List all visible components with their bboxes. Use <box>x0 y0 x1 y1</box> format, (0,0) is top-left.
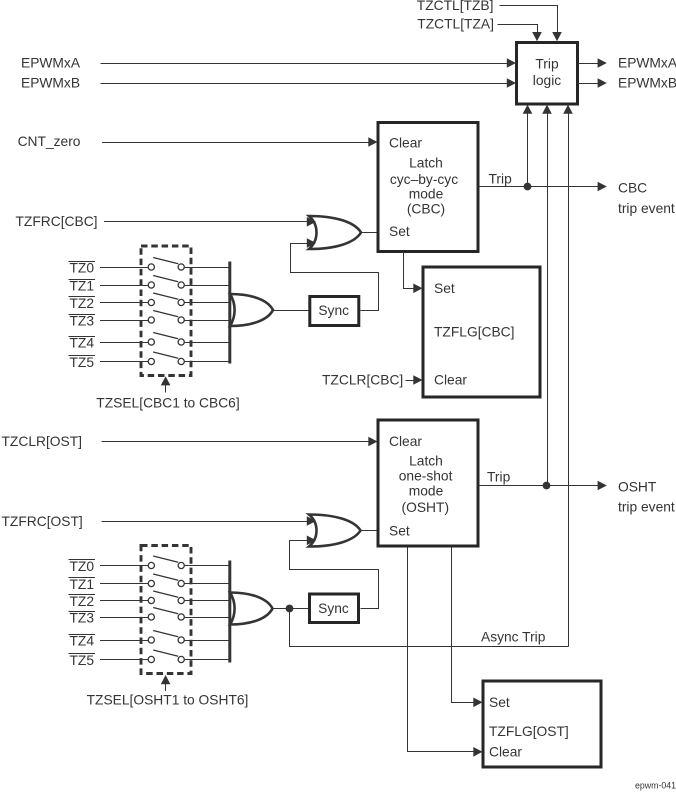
output label CBC trip event <box>618 181 675 216</box>
pin label Clear (TZFLG CBC) <box>434 373 467 388</box>
or-gate input bar (OSHT) <box>228 561 231 663</box>
input label TZ5 (OSHT) with overline <box>69 653 96 668</box>
svg-text:Trip: Trip <box>535 57 559 72</box>
figure id epwm-041 <box>635 781 676 791</box>
wire switch S9 to OR bar (OSHT) <box>184 600 228 602</box>
pin label Clear (OSHT latch) <box>389 434 422 449</box>
svg-text:EPWMxA: EPWMxA <box>618 56 676 71</box>
wire switch S6 to OR bar (CBC) <box>184 361 228 363</box>
dashed box TZSEL[CBC] switches <box>141 246 191 376</box>
block TZFLG[CBC] <box>423 267 540 397</box>
pin label Clear (CBC latch) <box>389 136 422 151</box>
wire TZ4 to switch S11 (OSHT) <box>100 640 148 642</box>
svg-text:TZ0: TZ0 <box>70 559 95 574</box>
svg-text:cyc–by-cyc: cyc–by-cyc <box>390 172 458 187</box>
input label TZ0 (CBC) with overline <box>69 260 96 275</box>
input label TZ2 (OSHT) with overline <box>69 594 96 609</box>
text Latch cyc-by-cyc mode (CBC) <box>390 156 458 217</box>
wire TZFRC[CBC] to OR gate U2 <box>104 217 316 227</box>
wire Async Trip up to Trip logic <box>563 105 573 647</box>
input label TZ0 (OSHT) with overline <box>69 559 96 574</box>
net label TZFRC[CBC] <box>16 214 98 229</box>
wire U3 output to Sync (OSHT) <box>272 608 310 610</box>
or-gate U4 (OSHT force) <box>309 515 361 547</box>
wire switch S4 to OR bar (CBC) <box>184 320 228 322</box>
wire Trip logic out B <box>578 78 607 88</box>
svg-text:mode: mode <box>409 484 444 499</box>
wire TZ5 to switch S6 (CBC) <box>100 361 148 363</box>
svg-text:Trip: Trip <box>487 470 511 485</box>
switch S2 (CBC) <box>148 276 184 289</box>
wire switch S10 to OR bar (OSHT) <box>184 617 228 619</box>
svg-text:TZFLG[CBC]: TZFLG[CBC] <box>434 324 514 339</box>
svg-text:Set: Set <box>434 281 455 296</box>
svg-text:TZ4: TZ4 <box>70 633 95 648</box>
wire CBC Trip to CBC trip event <box>478 182 607 192</box>
or-gate U2 (CBC force) <box>309 216 361 249</box>
wire TZ3 to switch S4 (CBC) <box>100 320 148 322</box>
svg-text:TZ2: TZ2 <box>70 594 95 609</box>
dashed box TZSEL[OSHT] switches <box>141 546 191 674</box>
wire TZCTL[TZB] to Trip logic <box>500 6 562 42</box>
svg-text:(OSHT): (OSHT) <box>402 500 450 515</box>
svg-text:Set: Set <box>389 224 410 239</box>
svg-text:CBC: CBC <box>618 181 647 196</box>
net label Trip (OSHT) <box>487 470 511 485</box>
block CBC latch <box>378 123 478 252</box>
block OSHT latch <box>378 420 478 546</box>
svg-text:logic: logic <box>533 73 561 88</box>
wire TZCLR[OST] to OSHT latch Clear <box>102 437 378 447</box>
switch S11 (OSHT) <box>148 631 184 644</box>
wire TZ3 to switch S10 (OSHT) <box>100 617 148 619</box>
select arrow TZSEL[CBC] <box>161 376 171 392</box>
switch S3 (CBC) <box>148 293 184 306</box>
wire OSHT latch to TZFLG[OST] Set <box>452 548 483 708</box>
svg-text:TZFRC[OST]: TZFRC[OST] <box>2 514 83 529</box>
output label EPWMxB <box>618 76 676 91</box>
pin label Set (TZFLG CBC) <box>434 281 455 296</box>
input label TZ1 (CBC) with overline <box>69 278 96 293</box>
pin label Set (CBC latch) <box>389 224 410 239</box>
svg-text:Clear: Clear <box>389 434 422 449</box>
wire switch S11 to OR bar (OSHT) <box>184 640 228 642</box>
wire U1 output to Sync (CBC) <box>272 310 309 312</box>
input label TZ5 (CBC) with overline <box>69 355 96 370</box>
switch S1 (CBC) <box>148 258 184 271</box>
input label TZ3 (OSHT) with overline <box>69 610 96 625</box>
svg-text:CNT_zero: CNT_zero <box>18 134 81 149</box>
switch S8 (OSHT) <box>148 574 184 587</box>
wire switch S1 to OR bar (CBC) <box>184 267 228 269</box>
net label CNT_zero <box>18 134 81 149</box>
svg-text:Sync: Sync <box>318 303 349 318</box>
wire Sync OSHT to OR gate U4 <box>290 536 379 609</box>
wire CNT_zero to CBC latch Clear <box>102 137 378 147</box>
svg-text:Trip: Trip <box>489 171 513 186</box>
pin label Set (OSHT latch) <box>389 523 410 538</box>
output label EPWMxA <box>618 56 676 71</box>
net label TZFRC[OST] <box>2 514 83 529</box>
svg-text:mode: mode <box>409 186 444 201</box>
svg-text:TZCTL[TZB]: TZCTL[TZB] <box>417 0 494 13</box>
pin label Set (TZFLG OST) <box>489 695 510 710</box>
wire U2 output to CBC latch Set <box>361 232 377 234</box>
wire CBC latch Set to TZFLG[CBC] Set <box>404 252 423 294</box>
wire TZ0 to switch S7 (OSHT) <box>100 565 148 567</box>
junction async trip <box>286 605 294 613</box>
svg-text:EPWMxB: EPWMxB <box>618 76 676 91</box>
junction CBC trip <box>524 183 532 191</box>
label TZSEL[OSHT1 to OSHT6] <box>87 692 249 707</box>
input label TZ2 (CBC) with overline <box>69 296 96 311</box>
input label TZ3 (CBC) with overline <box>69 313 96 328</box>
wire TZ1 to switch S8 (OSHT) <box>100 583 148 585</box>
pin label Clear (TZFLG OST) <box>489 744 522 759</box>
wire TZFRC[OST] to OR gate U4 <box>102 516 317 526</box>
wire TZ1 to switch S2 (CBC) <box>100 285 148 287</box>
text TZFLG[OST] <box>489 724 569 739</box>
svg-text:Set: Set <box>489 695 510 710</box>
net label TZCTL[TZA] <box>417 16 494 31</box>
input label TZ1 (OSHT) with overline <box>69 577 96 592</box>
net label Trip (CBC) <box>489 171 513 186</box>
switch S6 (CBC) <box>148 352 184 365</box>
svg-text:TZ2: TZ2 <box>70 296 95 311</box>
wire switch S3 to OR bar (CBC) <box>184 302 228 304</box>
input label EPWMxA <box>21 56 81 71</box>
wire TZCTL[TZA] to Trip logic <box>498 25 542 42</box>
svg-text:Set: Set <box>389 523 410 538</box>
svg-text:one-shot: one-shot <box>399 469 453 484</box>
wire EPWMxA into Trip logic <box>101 58 516 68</box>
svg-text:Latch: Latch <box>409 156 443 171</box>
select arrow TZSEL[OSHT] <box>161 675 171 691</box>
svg-text:trip event: trip event <box>618 500 675 515</box>
svg-text:TZCTL[TZA]: TZCTL[TZA] <box>417 16 494 31</box>
svg-text:TZCLR[CBC]: TZCLR[CBC] <box>322 373 403 388</box>
svg-text:TZSEL[OSHT1 to OSHT6]: TZSEL[OSHT1 to OSHT6] <box>87 692 249 707</box>
label TZSEL[CBC1 to CBC6] <box>96 395 239 410</box>
svg-text:Async Trip: Async Trip <box>481 629 546 644</box>
svg-text:TZ4: TZ4 <box>70 335 95 350</box>
wire TZ2 to switch S3 (CBC) <box>100 302 148 304</box>
svg-text:Sync: Sync <box>318 601 349 616</box>
svg-text:Clear: Clear <box>389 136 422 151</box>
svg-text:trip event: trip event <box>618 201 675 216</box>
or-gate input bar (CBC) <box>228 262 231 364</box>
wire Async Trip <box>290 609 569 647</box>
wire OSHT trip up to Trip logic <box>542 105 552 486</box>
svg-text:(CBC): (CBC) <box>407 202 445 217</box>
wire TZCLR[CBC] to TZFLG[CBC] Clear <box>406 375 423 385</box>
svg-text:TZFRC[CBC]: TZFRC[CBC] <box>16 214 98 229</box>
svg-text:TZ1: TZ1 <box>70 278 95 293</box>
block Sync (CBC) <box>310 297 359 326</box>
or-gate U1 (CBC 6-input) <box>230 294 273 326</box>
svg-text:TZSEL[CBC1 to CBC6]: TZSEL[CBC1 to CBC6] <box>96 395 239 410</box>
switch S10 (OSHT) <box>148 608 184 621</box>
junction OSHT trip <box>543 482 551 490</box>
net label TZCLR[CBC] <box>322 373 403 388</box>
svg-text:epwm-041: epwm-041 <box>635 781 676 791</box>
block Sync (OSHT) <box>310 594 359 623</box>
wire EPWMxB into Trip logic <box>101 78 516 88</box>
wire OSHT latch to TZFLG[OST] Clear <box>408 548 483 757</box>
or-gate U3 (OSHT 6-input) <box>230 593 273 625</box>
svg-text:Clear: Clear <box>434 373 467 388</box>
wire U4 output to OSHT latch Set <box>361 530 378 532</box>
net label TZCTL[TZB] <box>417 0 494 13</box>
svg-text:TZCLR[OST]: TZCLR[OST] <box>2 434 82 449</box>
wire switch S2 to OR bar (CBC) <box>184 285 228 287</box>
svg-text:TZ3: TZ3 <box>70 610 95 625</box>
input label EPWMxB <box>21 76 80 91</box>
svg-text:TZ5: TZ5 <box>70 355 95 370</box>
svg-text:Latch: Latch <box>409 454 443 469</box>
svg-text:EPWMxB: EPWMxB <box>21 76 80 91</box>
svg-text:TZFLG[OST]: TZFLG[OST] <box>489 724 569 739</box>
net label TZCLR[OST] <box>2 434 82 449</box>
wire Trip logic out A <box>578 58 607 68</box>
output label OSHT trip event <box>618 480 675 515</box>
svg-text:TZ5: TZ5 <box>70 653 95 668</box>
switch S5 (CBC) <box>148 333 184 346</box>
wire TZ5 to switch S12 (OSHT) <box>100 659 148 661</box>
text TZFLG[CBC] <box>434 324 514 339</box>
wire switch S8 to OR bar (OSHT) <box>184 583 228 585</box>
svg-text:TZ0: TZ0 <box>70 260 95 275</box>
svg-text:Clear: Clear <box>489 744 522 759</box>
wire switch S7 to OR bar (OSHT) <box>184 565 228 567</box>
svg-text:TZ3: TZ3 <box>70 313 95 328</box>
svg-text:OSHT: OSHT <box>618 480 657 495</box>
switch S4 (CBC) <box>148 311 184 324</box>
block Trip logic <box>517 43 578 105</box>
block TZFLG[OST] <box>483 681 601 767</box>
wire TZ2 to switch S9 (OSHT) <box>100 600 148 602</box>
wire Sync CBC to OR gate U2 <box>291 238 379 310</box>
wire switch S12 to OR bar (OSHT) <box>184 659 228 661</box>
wire TZ0 to switch S1 (CBC) <box>100 267 148 269</box>
wire OSHT Trip to OSHT trip event <box>478 481 607 491</box>
svg-text:TZ1: TZ1 <box>70 577 95 592</box>
switch S12 (OSHT) <box>148 650 184 663</box>
text Latch one-shot mode (OSHT) <box>399 454 453 516</box>
wire CBC trip up to Trip logic <box>523 105 533 187</box>
switch S7 (OSHT) <box>148 556 184 569</box>
svg-text:EPWMxA: EPWMxA <box>21 56 81 71</box>
wire TZ4 to switch S5 (CBC) <box>100 342 148 344</box>
switch S9 (OSHT) <box>148 591 184 604</box>
input label TZ4 (OSHT) with overline <box>69 633 96 648</box>
wire switch S5 to OR bar (CBC) <box>184 342 228 344</box>
input label TZ4 (CBC) with overline <box>69 335 96 350</box>
net label Async Trip <box>481 629 546 644</box>
